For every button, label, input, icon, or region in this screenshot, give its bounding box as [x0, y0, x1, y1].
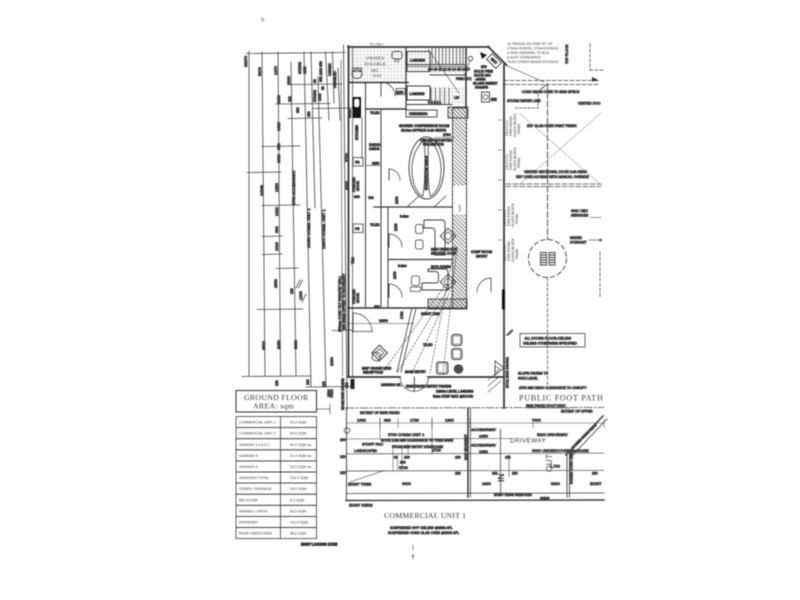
- svg-text:GARAGE 3,4,6 & 7: GARAGE 3,4,6 & 7: [239, 443, 270, 447]
- svg-text:21.4 SQM ea: 21.4 SQM ea: [290, 454, 311, 458]
- svg-text:EDGE BWR PAVING: EDGE BWR PAVING: [341, 378, 345, 410]
- office1 desk: [424, 220, 445, 255]
- small verticals dims cluster: [380, 418, 432, 470]
- svg-text:9.6m²: 9.6m²: [400, 215, 410, 219]
- svg-text:MIN 20mm OFFSET TO BOUNDARY: MIN 20mm OFFSET TO BOUNDARY: [342, 273, 346, 330]
- hatch diag lines bottom left corner of footpath: [488, 372, 501, 392]
- office2 chair: [412, 276, 420, 286]
- svg-text:170mm RISERS, 270mmGOINGS: 170mm RISERS, 270mmGOINGS: [507, 47, 559, 51]
- svg-text:VENTED SECTIONAL DOOR 3.6A HEA: VENTED SECTIONAL DOOR 3.6A HEAD: [524, 170, 588, 174]
- svg-text:150: 150: [340, 438, 346, 442]
- svg-text:1500: 1500: [327, 389, 331, 397]
- svg-text:IN: IN: [496, 474, 506, 483]
- svg-text:COMMERCIAL UNIT 1: COMMERCIAL UNIT 1: [384, 511, 466, 520]
- stairs mid rail: [408, 64, 466, 66]
- svg-text:& 900h HANDRAIL TO BCA: & 900h HANDRAIL TO BCA: [507, 51, 550, 55]
- svg-text:8 9 10 11 12 13 14 15 16 17: 8 9 10 11 12 13 14 15 16 17: [428, 68, 470, 72]
- break marks: [296, 280, 300, 288]
- heavy vertical accessway divider: [467, 408, 469, 497]
- dim line v9: [333, 52, 335, 103]
- svg-text:STORM WATER LINE: STORM WATER LINE: [507, 99, 541, 103]
- dim line v8: [326, 52, 330, 120]
- office2 desk: [422, 269, 448, 290]
- wall conf north: [366, 108, 406, 110]
- svg-text:91.2 SQM: 91.2 SQM: [290, 421, 306, 425]
- svg-text:STAIRS: STAIRS: [298, 61, 302, 74]
- stairs spec note: [507, 42, 559, 64]
- svg-text:NOOK: NOOK: [356, 292, 360, 303]
- tick y84: [289, 83, 342, 86]
- header box: [236, 391, 317, 413]
- svg-text:EXTENT OF UPPER: EXTENT OF UPPER: [561, 410, 593, 414]
- svg-text:40.2 SQM ea: 40.2 SQM ea: [290, 443, 311, 447]
- svg-text:MICHAEL CONF: MICHAEL CONF: [431, 252, 457, 256]
- svg-text:PANEL: PANEL: [517, 157, 521, 168]
- hatched wall crosshatch lower: [453, 250, 467, 308]
- svg-text:DRIVEWAY: DRIVEWAY: [239, 521, 258, 525]
- svg-text:1010: 1010: [274, 241, 279, 251]
- tick y268: [276, 267, 298, 270]
- svg-text:TILED: TILED: [423, 343, 433, 347]
- svg-text:RECEPTION: RECEPTION: [363, 371, 383, 375]
- svg-text:AREA: sqm: AREA: sqm: [253, 402, 294, 411]
- band dim window: [454, 186, 466, 214]
- svg-text:150: 150: [340, 455, 346, 459]
- svg-text:5365: 5365: [458, 204, 462, 212]
- speck top left: [261, 18, 264, 21]
- wall reception south right: [428, 376, 504, 378]
- 1150 dim with leader: [366, 165, 381, 167]
- svg-text:1150: 1150: [372, 162, 379, 166]
- svg-text:950 1600 950: 950 1600 950: [319, 61, 323, 82]
- svg-text:TILED STAIRS BRASS EDGINGS: TILED STAIRS BRASS EDGINGS: [507, 60, 559, 64]
- svg-text:7000: 7000: [532, 418, 542, 423]
- dim line v3: [278, 52, 281, 376]
- svg-text:1600: 1600: [357, 418, 367, 423]
- wall ticks x: [498, 120, 502, 240]
- stairs leader arrow: [428, 49, 459, 93]
- tiles stair area: [408, 48, 466, 74]
- wall offices west: [387, 207, 389, 308]
- svg-text:COMMERCIAL UNIT 1: COMMERCIAL UNIT 1: [239, 421, 276, 425]
- svg-text:5mm STEP MAX @DOOR: 5mm STEP MAX @DOOR: [433, 395, 474, 399]
- svg-text:SUSPENDED GYP CEILING @2688 AF: SUSPENDED GYP CEILING @2688 AFL: [390, 526, 453, 530]
- svg-text:900: 900: [354, 195, 360, 199]
- svg-text:150: 150: [290, 288, 294, 294]
- tiles WC floor: [350, 48, 408, 82]
- WC toilet: [352, 70, 362, 79]
- svg-text:CREDENZA: CREDENZA: [409, 112, 428, 116]
- svg-text:1200: 1200: [298, 290, 303, 300]
- svg-text:DRIVEWAY: DRIVEWAY: [510, 438, 547, 445]
- svg-text:150: 150: [374, 305, 380, 309]
- svg-text:11548: 11548: [259, 184, 264, 196]
- svg-text:3250: 3250: [276, 339, 281, 349]
- svg-text:PATH LEVEL: PATH LEVEL: [518, 377, 538, 381]
- svg-text:870: 870: [481, 65, 487, 69]
- reception desk diamond: [372, 345, 388, 361]
- svg-text:13450 COMM. UNIT 1: 13450 COMM. UNIT 1: [306, 208, 311, 248]
- svg-text:150: 150: [345, 382, 349, 388]
- lane vertical lines: [500, 429, 502, 493]
- dim line v6: [311, 52, 315, 208]
- svg-text:ACCESSWAY: ACCESSWAY: [471, 427, 496, 432]
- svg-text:8.8m²: 8.8m²: [398, 264, 408, 268]
- row texts: [239, 421, 311, 536]
- svg-text:UP: UP: [454, 95, 460, 100]
- svg-text:PB: PB: [355, 227, 360, 231]
- svg-text:151.5 SQM: 151.5 SQM: [290, 521, 308, 525]
- svg-text:600x600: 600x600: [475, 86, 488, 90]
- svg-text:5700: 5700: [399, 465, 409, 470]
- svg-text:1370: 1370: [395, 196, 399, 204]
- bottom dim line y376: [242, 375, 311, 378]
- dim line v10: [338, 68, 340, 120]
- office1 door arc: [389, 234, 402, 247]
- svg-text:2590: 2590: [273, 278, 278, 288]
- hatched wall top horizontal: [448, 107, 468, 118]
- garage edge double vertical: [566, 454, 568, 497]
- svg-text:1010: 1010: [274, 206, 279, 216]
- right edge dashed vertical: [599, 252, 601, 297]
- svg-text:650: 650: [276, 143, 281, 150]
- tiles stair low: [430, 86, 466, 105]
- svg-text:1200w LEVEL LANDING: 1200w LEVEL LANDING: [436, 390, 474, 394]
- office2 corner desk diamond: [440, 274, 456, 290]
- svg-text:2854: 2854: [379, 318, 389, 323]
- svg-text:NOOK: NOOK: [356, 180, 360, 191]
- svg-text:1720: 1720: [410, 418, 420, 423]
- svg-text:2260: 2260: [329, 356, 334, 366]
- svg-text:GAS / SEC: GAS / SEC: [571, 209, 589, 213]
- svg-text:EXIST KERB: EXIST KERB: [349, 503, 373, 508]
- svg-text:5 4 3 2 1: 5 4 3 2 1: [428, 101, 441, 105]
- svg-text:3500: 3500: [261, 340, 266, 350]
- WC basin WB: [392, 52, 402, 60]
- leader beam: [540, 84, 547, 90]
- N50 box: [396, 89, 405, 95]
- door knob circle: [468, 56, 472, 60]
- svg-text:1150: 1150: [396, 91, 403, 95]
- projector box: [424, 140, 435, 146]
- bottom ticks: [306, 386, 352, 389]
- landing box 2: [407, 86, 430, 100]
- svg-text:RAISED CONC KERB: RAISED CONC KERB: [571, 423, 598, 450]
- svg-text:18.6m² APPROX 8-10 SEATS: 18.6m² APPROX 8-10 SEATS: [401, 129, 447, 133]
- svg-text:150: 150: [306, 379, 310, 385]
- svg-text:C/BDS: C/BDS: [369, 147, 380, 151]
- black fridge rect: [353, 97, 362, 118]
- office2 door arc: [389, 284, 402, 297]
- svg-text:CONC BEAM OVER TO ENG SPECS: CONC BEAM OVER TO ENG SPECS: [522, 90, 580, 94]
- svg-text:TILED: TILED: [370, 223, 380, 227]
- svg-text:150: 150: [307, 111, 311, 117]
- svg-text:UNISEX: UNISEX: [328, 63, 332, 76]
- table halves: [412, 140, 425, 197]
- rows: [236, 417, 317, 539]
- big X cross faint: [519, 113, 601, 185]
- svg-text:TILED: TILED: [370, 111, 380, 115]
- tick y330: [332, 329, 352, 332]
- stairs lower treads: [431, 88, 449, 104]
- UNISEX DISABLE WC text: [365, 43, 401, 79]
- svg-text:1800: 1800: [482, 481, 492, 486]
- reception chair: [371, 352, 381, 362]
- dim line v2: [262, 52, 265, 376]
- svg-text:1370: 1370: [273, 65, 278, 75]
- left vertical edge of site: [346, 408, 348, 500]
- svg-text:OUT: OUT: [545, 454, 554, 472]
- svg-text:2660: 2660: [286, 75, 291, 85]
- svg-text:1010: 1010: [276, 153, 281, 163]
- svg-text:HYDRANT: HYDRANT: [570, 241, 586, 245]
- svg-text:VENTED DOO: VENTED DOO: [578, 102, 601, 106]
- svg-text:90: 90: [321, 86, 325, 90]
- svg-text:SLOPE PAVING TO: SLOPE PAVING TO: [518, 372, 548, 376]
- reception door arc big: [353, 313, 372, 332]
- svg-text:ETO2 BWR PAVING: ETO2 BWR PAVING: [506, 357, 510, 388]
- entry ramp diagonals: [397, 308, 412, 372]
- tick y205: [262, 204, 300, 207]
- svg-text:150: 150: [288, 96, 292, 102]
- svg-text:1650: 1650: [479, 434, 489, 439]
- svg-text:BWK PAVED ENTRY PAVING: BWK PAVED ENTRY PAVING: [406, 385, 452, 389]
- svg-text:MAIN ENTRY: MAIN ENTRY: [405, 370, 427, 374]
- svg-text:EXIST TREE: EXIST TREE: [348, 482, 372, 487]
- bottom double line of vented door: [506, 183, 601, 185]
- svg-text:SUSPENDED CONC SLAB OVER @3000: SUSPENDED CONC SLAB OVER @3000 AFL: [388, 531, 459, 535]
- wall stairs east: [465, 47, 467, 108]
- horizontal line y439: [346, 438, 511, 441]
- sight line dashes: [383, 245, 457, 374]
- PR box: [353, 224, 363, 233]
- svg-text:BOARDROOM TABLE: BOARDROOM TABLE: [425, 155, 429, 190]
- conc beam dashed double line: [504, 80, 600, 82]
- FR box: [353, 158, 363, 167]
- black blob door top: [480, 52, 487, 59]
- boardroom table ellipse: [409, 137, 444, 199]
- lobby chairs right: [452, 335, 463, 346]
- leader to fire ext: [464, 61, 470, 76]
- svg-text:EXIST LOADING ZONE: EXIST LOADING ZONE: [301, 543, 338, 547]
- svg-text:PL ONLY: PL ONLY: [370, 43, 385, 47]
- svg-text:1610: 1610: [276, 121, 281, 131]
- svg-text:SIGHT LINE: SIGHT LINE: [421, 312, 441, 316]
- svg-text:STAFF FAC: STAFF FAC: [362, 442, 383, 447]
- kerb removed line: [346, 492, 604, 495]
- small circle symbol: [344, 428, 350, 434]
- svg-text:DISABLE: DISABLE: [365, 62, 387, 68]
- svg-text:6000: 6000: [402, 481, 412, 486]
- svg-text:GROUND FLOOR: GROUND FLOOR: [244, 393, 309, 402]
- wall kitchen east: [365, 83, 367, 308]
- horizontal line y470.5: [346, 469, 604, 472]
- extent line dashed: [346, 407, 604, 410]
- svg-text:TILED: TILED: [372, 74, 382, 78]
- svg-text:150: 150: [322, 381, 326, 387]
- svg-text:UNLESS OTHERWISE SPECIFIED: UNLESS OTHERWISE SPECIFIED: [523, 342, 577, 346]
- ramp triangles: [495, 361, 504, 375]
- svg-text:32270: 32270: [243, 55, 248, 67]
- svg-text:STAIRS / PASSAGE: STAIRS / PASSAGE: [239, 487, 272, 491]
- hatched wall bottom horizontal: [428, 299, 467, 309]
- svg-text:2130: 2130: [394, 223, 398, 231]
- svg-text:94.5 SQM: 94.5 SQM: [290, 432, 306, 436]
- svg-text:TBC: TBC: [351, 257, 355, 264]
- svg-text:233.3 SQM: 233.3 SQM: [290, 476, 308, 480]
- svg-text:PANEL: PANEL: [515, 213, 519, 224]
- svg-text:2730: 2730: [432, 448, 442, 453]
- svg-text:6.3 SQM: 6.3 SQM: [290, 498, 304, 502]
- stairs upper treads: [432, 48, 463, 64]
- dim line v11 boundary: [344, 45, 348, 410]
- black door left low: [351, 379, 355, 389]
- svg-text:700: 700: [368, 196, 374, 200]
- wall conf/office divider: [374, 206, 452, 208]
- svg-text:150: 150: [455, 456, 461, 460]
- bottom boundary dark line: [346, 499, 604, 502]
- svg-text:RAISED CONC KERB: RAISED CONC KERB: [570, 450, 574, 484]
- hydrant stem dash: [547, 278, 549, 389]
- landing box 1: [407, 52, 430, 72]
- main entry doors arcs: [400, 377, 414, 391]
- svg-text:16570 COMM. UNIT 1: 16570 COMM. UNIT 1: [321, 209, 326, 249]
- svg-text:ALL DOORS FLOOR-CEILING: ALL DOORS FLOOR-CEILING: [525, 337, 572, 341]
- glass block note col1: [505, 113, 521, 137]
- svg-text:1800: 1800: [445, 418, 455, 423]
- svg-text:TOP FLOOR: TOP FLOOR: [565, 44, 569, 64]
- raised conc kerb diagonal: [566, 416, 603, 455]
- svg-text:EXIST: EXIST: [590, 481, 602, 486]
- svg-text:5200: 5200: [551, 481, 561, 486]
- office1 corner desk diamond: [440, 228, 456, 244]
- dim line v7: [318, 77, 326, 387]
- planter dark circle: [454, 364, 464, 374]
- svg-text:33.5 SQM ea: 33.5 SQM ea: [290, 465, 311, 469]
- svg-text:6000 UNDERCOVER GARAGE: 6000 UNDERCOVER GARAGE: [532, 448, 589, 453]
- svg-text:CONF ROOM: CONF ROOM: [471, 250, 492, 254]
- svg-text:FR: FR: [355, 161, 360, 165]
- credenza box: [406, 110, 437, 117]
- office1 chairs: [416, 225, 424, 234]
- svg-text:ACCESSWAY: ACCESSWAY: [471, 443, 496, 448]
- lobby table: [437, 362, 449, 374]
- tick y172: [247, 171, 281, 174]
- svg-text:5370: 5370: [257, 66, 262, 76]
- svg-text:2764: 2764: [443, 133, 451, 137]
- svg-text:BIN STORE: BIN STORE: [239, 498, 259, 502]
- svg-text:REAR HARDSTAND: REAR HARDSTAND: [239, 532, 272, 536]
- tick y146: [262, 145, 300, 148]
- tick top long: [246, 53, 345, 54]
- svg-text:1550: 1550: [274, 182, 279, 192]
- wall office divider2: [388, 259, 452, 261]
- hydrant grid left: [541, 253, 547, 266]
- svg-text:EXIST KERB REMOVED: EXIST KERB REMOVED: [494, 493, 533, 497]
- svg-text:PANEL: PANEL: [515, 248, 519, 259]
- svg-text:& AUST STANDARDS.: & AUST STANDARDS.: [507, 56, 542, 60]
- svg-text:PUBLIC FOOT PATH: PUBLIC FOOT PATH: [519, 394, 603, 403]
- svg-text:WATER: WATER: [570, 236, 582, 240]
- wall top: [348, 46, 489, 48]
- svg-text:1050: 1050: [303, 66, 307, 74]
- svg-text:GARAGES TOTAL: GARAGES TOTAL: [239, 476, 269, 480]
- svg-text:5700 COMM UNIT 1: 5700 COMM UNIT 1: [388, 432, 425, 437]
- svg-text:GARAGE 8: GARAGE 8: [239, 465, 257, 469]
- svg-text:SERVICES: SERVICES: [571, 214, 589, 218]
- svg-text:950: 950: [296, 107, 300, 113]
- conf door arc: [389, 169, 400, 180]
- wall west inner face: [352, 47, 354, 376]
- horizontal line y453.5: [346, 452, 604, 455]
- conf se corner seat: [407, 196, 419, 207]
- svg-text:GARAGE 5: GARAGE 5: [239, 454, 257, 458]
- ALL DOORS note box: [520, 334, 585, 348]
- svg-text:LANDSCAPED: LANDSCAPED: [354, 449, 378, 453]
- svg-text:83.0 SQM: 83.0 SQM: [290, 509, 306, 513]
- dim line v5: [304, 52, 311, 387]
- svg-text:2700 MIN HEAD CLEARANCE TO CAN: 2700 MIN HEAD CLEARANCE TO CANOPY: [519, 386, 587, 390]
- svg-text:PANEL: PANEL: [517, 123, 521, 134]
- exist tree leader: [350, 471, 384, 483]
- svg-text:880: 880: [384, 418, 391, 423]
- glass block note col2: [505, 147, 521, 171]
- glass block note col3: [503, 203, 519, 227]
- svg-text:KEY CARD ACCESS WITH MANUAL OV: KEY CARD ACCESS WITH MANUAL OVERIDE: [516, 175, 589, 179]
- svg-text:150: 150: [275, 380, 279, 386]
- svg-text:COMMERCIAL UNIT 2: COMMERCIAL UNIT 2: [239, 432, 276, 436]
- wall west: [348, 46, 350, 377]
- svg-text:250: 250: [592, 472, 598, 476]
- glass block note col4: [503, 238, 519, 262]
- dim line row1: [346, 422, 604, 424]
- dim line v1 32270: [248, 51, 250, 376]
- svg-text:90: 90: [313, 79, 317, 83]
- svg-text:LANDING: LANDING: [410, 92, 425, 96]
- wall wc south: [349, 82, 408, 84]
- svg-text:FIRE EXT.: FIRE EXT.: [456, 77, 472, 81]
- svg-text:1050: 1050: [318, 93, 322, 101]
- hatched wall band vertical: [453, 108, 467, 308]
- wall conf west: [380, 109, 382, 308]
- tick y236: [262, 235, 282, 238]
- svg-text:SHARED CONFERENCE ROOM: SHARED CONFERENCE ROOM: [399, 124, 449, 128]
- wall reception south: [348, 376, 400, 378]
- pencil mark: [506, 329, 514, 336]
- svg-text:DISABLED: DISABLED: [333, 71, 337, 88]
- dashed corner top right: [589, 44, 591, 70]
- svg-text:MAX GRADIENT: MAX GRADIENT: [464, 434, 468, 460]
- svg-text:150: 150: [404, 456, 410, 460]
- dim ticks row1: [347, 418, 605, 428]
- wall east black segment: [502, 291, 505, 308]
- wall corner diagonal: [488, 47, 507, 66]
- svg-text:870: 870: [491, 98, 497, 102]
- hydrant dashed circle: [529, 240, 567, 278]
- svg-text:1980: 1980: [276, 94, 281, 104]
- svg-text:UNISEX: UNISEX: [366, 56, 386, 62]
- dim line v4: [291, 62, 296, 376]
- wall east: [503, 64, 505, 408]
- office2 desk small: [411, 287, 421, 292]
- corridor door arc: [477, 278, 491, 292]
- WC door arc: [381, 82, 395, 96]
- tick y103: [276, 103, 330, 106]
- header leader: [317, 408, 331, 410]
- tiny marks bottom: [412, 545, 415, 559]
- hydrant grid right: [549, 253, 555, 266]
- beam arrow: [592, 77, 599, 82]
